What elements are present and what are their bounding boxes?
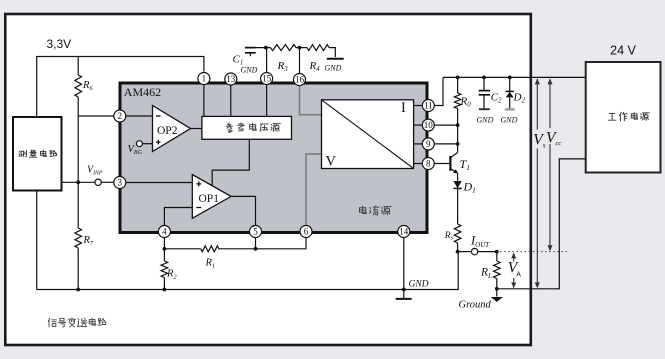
svg-text:AM462: AM462	[124, 85, 161, 99]
svg-text:4: 4	[162, 227, 167, 237]
svg-text:6: 6	[304, 227, 309, 237]
svg-text:3: 3	[118, 178, 123, 188]
svg-text:11: 11	[424, 101, 433, 111]
svg-text:GND: GND	[477, 116, 494, 125]
svg-text:2: 2	[118, 111, 123, 121]
svg-text:16: 16	[295, 75, 305, 85]
svg-text:10: 10	[424, 120, 434, 130]
svg-text:24 V: 24 V	[610, 44, 636, 58]
svg-text:GND: GND	[501, 116, 518, 125]
svg-text:3,3V: 3,3V	[47, 37, 72, 51]
svg-text:V: V	[326, 154, 337, 170]
svg-text:9: 9	[426, 139, 431, 149]
svg-text:15: 15	[262, 74, 272, 84]
svg-text:OP1: OP1	[199, 193, 220, 205]
svg-text:8: 8	[426, 159, 431, 169]
svg-text:14: 14	[399, 227, 409, 237]
svg-text:5: 5	[253, 227, 258, 237]
svg-text:OP2: OP2	[157, 125, 178, 137]
svg-text:GND: GND	[409, 280, 429, 290]
svg-text:13: 13	[226, 74, 236, 84]
svg-text:Ground: Ground	[459, 300, 492, 311]
svg-text:A: A	[516, 272, 521, 279]
svg-text:I: I	[401, 100, 406, 116]
svg-text:1: 1	[202, 74, 207, 84]
svg-text:GND: GND	[325, 64, 342, 73]
svg-text:GND: GND	[241, 66, 258, 75]
